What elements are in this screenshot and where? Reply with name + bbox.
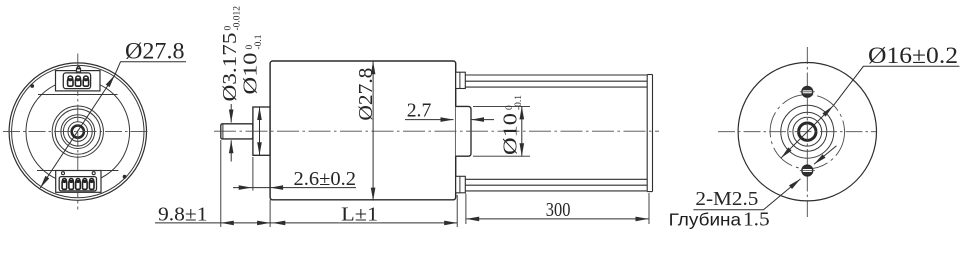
top connector outer rectangle xyxy=(56,71,101,91)
top connector index dot xyxy=(77,66,80,69)
right view circle r26.5 xyxy=(781,105,834,158)
leader 2-M2.5 xyxy=(693,179,800,210)
left view inner circle (can inner wall) xyxy=(26,80,130,184)
svg-text:1.5: 1.5 xyxy=(743,208,770,230)
mounting hole M2.5 top xyxy=(802,86,813,97)
svg-text:2.6±0.2: 2.6±0.2 xyxy=(294,168,357,190)
weld nub upper-left xyxy=(30,84,34,88)
cable end bar xyxy=(647,75,652,192)
right view circle r19.5 xyxy=(788,112,827,151)
left view: motor front face xyxy=(9,63,146,200)
left view horizontal centerline xyxy=(3,131,150,133)
left view outer circle (housing OD) xyxy=(9,63,146,200)
leader arrow to bottom hole (upper right) xyxy=(814,146,837,165)
motor body xyxy=(270,61,456,200)
bottom connector outer rectangle xyxy=(56,171,101,193)
svg-text:Ø10: Ø10 xyxy=(500,113,522,155)
shaft xyxy=(221,124,253,139)
left view boss circle r22.6 xyxy=(55,109,100,154)
dimension Ø16±0.2 diameter line xyxy=(781,106,833,158)
svg-text:Ø16±0.2: Ø16±0.2 xyxy=(868,43,958,68)
svg-text:-0.012: -0.012 xyxy=(232,6,242,31)
left view vertical centerline xyxy=(77,54,79,210)
dimension Ø27.8 vertical line with arrows xyxy=(372,61,374,200)
top cable clamp tab xyxy=(456,72,466,88)
dimension 2.6 extension line xyxy=(252,157,254,191)
extension line cable end xyxy=(648,193,650,224)
extension line body left face xyxy=(269,200,271,227)
dimension Ø3.175 upper arrow xyxy=(230,104,232,123)
svg-text:2.7: 2.7 xyxy=(407,100,432,122)
left view bottom flat chord xyxy=(37,170,119,172)
right view bolt circle (dashed) xyxy=(770,95,844,169)
right view: motor rear face xyxy=(738,63,876,201)
dimension 9.8±1 line xyxy=(155,222,221,224)
dimension Ø27.8 diagonal diameter line xyxy=(40,75,115,188)
dimension 300 line xyxy=(466,218,648,220)
dimension Ø16±0.2 leader and shelf xyxy=(833,66,959,106)
dimension Ø27.8 rotated label xyxy=(355,68,377,121)
svg-text:-0.1: -0.1 xyxy=(254,34,264,49)
dimension Ø10 (rear boss) rotated label xyxy=(500,95,525,155)
extension line body right face xyxy=(456,195,458,227)
svg-text:Ø27.8: Ø27.8 xyxy=(355,68,377,121)
svg-text:9.8±1: 9.8±1 xyxy=(158,203,208,225)
left view second circle (housing wall) xyxy=(12,65,144,197)
dimension Ø10 (front boss) arrows xyxy=(259,107,261,155)
front boss Ø10 xyxy=(253,107,270,155)
right view horizontal centerline xyxy=(718,131,877,133)
dimension Ø3.175 lower arrow xyxy=(230,140,232,161)
svg-text:Ø27.8: Ø27.8 xyxy=(125,39,185,64)
dimension 2.7 line xyxy=(405,119,454,121)
left view top flat chord xyxy=(38,94,118,96)
extension line cable start xyxy=(465,194,467,225)
rear boss extension lines xyxy=(473,105,530,107)
rear boss Ø10 xyxy=(456,106,471,156)
left view bearing circle r14.4 xyxy=(63,117,92,146)
bottom ribbon cable xyxy=(465,179,647,191)
left view bearing circle r16.9 xyxy=(61,115,95,149)
dimension 2.6 line xyxy=(233,187,356,189)
left view shaft ring (thick) xyxy=(72,126,84,138)
top connector pins (3) xyxy=(68,76,89,86)
svg-text:Ø10: Ø10 xyxy=(240,53,262,95)
middle view centerline xyxy=(214,130,659,132)
right view vertical centerline xyxy=(806,47,808,220)
top ribbon cable xyxy=(465,75,647,87)
top connector inner rounded rectangle xyxy=(63,73,90,89)
svg-text:Ø3.175: Ø3.175 xyxy=(219,33,241,102)
weld nub lower-right xyxy=(123,175,127,179)
bottom connector pins (5) xyxy=(62,179,94,190)
right view outer circle xyxy=(738,63,876,201)
svg-text:Глубина: Глубина xyxy=(669,209,742,229)
dimension Ø3.175 rotated label xyxy=(219,6,243,102)
svg-text:-0.1: -0.1 xyxy=(514,95,524,110)
dimension Ø27.8 leader and shelf xyxy=(115,62,186,75)
left view boss circle r25.6 xyxy=(52,106,103,157)
svg-text:300: 300 xyxy=(546,199,571,221)
shaft chamfer line xyxy=(222,124,224,139)
dimension Ø10 (front boss) rotated label xyxy=(240,34,265,94)
bottom connector inner rounded rectangle xyxy=(59,177,96,191)
top connector index square xyxy=(77,68,81,72)
right view shaft ring (thick) xyxy=(799,123,816,140)
left view hub circle r9.8 xyxy=(68,122,88,142)
dimension L±1 line xyxy=(270,222,457,224)
bottom connector ear circles xyxy=(62,172,65,175)
right view circle r14.4 xyxy=(793,117,822,146)
bottom cable clamp tab xyxy=(456,176,466,193)
svg-text:L±1: L±1 xyxy=(341,203,378,225)
mounting hole M2.5 bottom xyxy=(802,165,813,176)
svg-text:2-M2.5: 2-M2.5 xyxy=(695,188,758,210)
dimension Ø10 (rear boss) arrows xyxy=(521,106,523,156)
extension line shaft tip xyxy=(220,140,222,227)
